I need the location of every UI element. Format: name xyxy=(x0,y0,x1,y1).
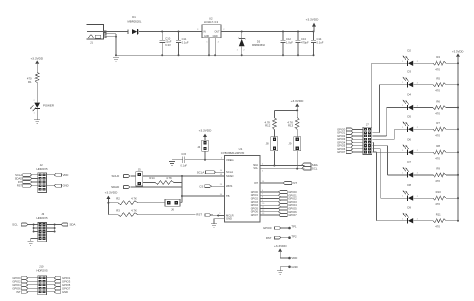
wire J3 to ground xyxy=(31,239,38,242)
svg-text:R7: R7 xyxy=(436,121,440,125)
wire J7 to LED row 6 xyxy=(373,146,405,175)
net flag GPIO2 (J7) xyxy=(337,134,363,138)
svg-text:TP1: TP1 xyxy=(291,225,297,229)
net flag RST xyxy=(196,213,224,217)
capacitor C12 xyxy=(280,32,293,57)
svg-text:R14: R14 xyxy=(149,176,155,180)
pullup resistor R12 4.7K xyxy=(265,110,278,165)
svg-text:OUT: OUT xyxy=(215,30,221,33)
svg-text:GND: GND xyxy=(226,217,232,221)
svg-text:GPIO0: GPIO0 xyxy=(263,226,272,230)
svg-text:GPIO7: GPIO7 xyxy=(251,214,259,217)
LED D3 xyxy=(402,70,419,88)
bottom rail wire xyxy=(116,54,314,56)
wire GPIO0 to flag xyxy=(260,190,279,192)
svg-text:+3.3VDD: +3.3VDD xyxy=(199,129,212,133)
connector J2 xyxy=(36,163,47,192)
ground (J3) xyxy=(28,241,34,245)
net flag GPIO3 (J7) xyxy=(337,137,363,141)
net flag GPIO1 (J10 right) xyxy=(47,276,71,280)
wire jack lower pins xyxy=(106,34,117,57)
svg-text:D7: D7 xyxy=(407,160,411,164)
chip pin names right xyxy=(253,164,259,185)
svg-text:SDAD: SDAD xyxy=(111,185,119,189)
resistor R6 470 xyxy=(414,99,459,115)
svg-text:CY8C9520-24PVXI: CY8C9520-24PVXI xyxy=(221,151,245,155)
wire J7 to LED row 1 xyxy=(372,63,404,127)
net flag SDA xyxy=(302,163,318,167)
net flag GPIO6 (J7) xyxy=(337,147,363,151)
ground (chip) xyxy=(211,224,217,228)
wire J7 to LED row 4 xyxy=(373,129,405,139)
resistor R4 470 xyxy=(414,55,459,71)
LED D8 xyxy=(402,183,419,201)
net flag GPIO7 xyxy=(279,213,298,217)
svg-text:HDR2X5: HDR2X5 xyxy=(36,167,47,171)
svg-text:GND: GND xyxy=(291,265,297,269)
net flag INT (J10 left) xyxy=(16,290,37,294)
capacitor C15 0.1uF xyxy=(180,153,187,167)
svg-text:470: 470 xyxy=(435,156,440,160)
zener diode D3 MMBZ4532 xyxy=(237,32,266,57)
wire R1 to LED xyxy=(33,83,37,103)
svg-text:R1: R1 xyxy=(28,80,32,84)
net flag SCL xyxy=(302,167,318,171)
svg-text:GND: GND xyxy=(63,184,69,188)
net flag SDA (J3) xyxy=(47,223,76,227)
svg-text:MBR0520L: MBR0520L xyxy=(128,20,142,24)
svg-text:D4: D4 xyxy=(407,93,411,97)
svg-text:HDR2X5: HDR2X5 xyxy=(36,269,47,273)
wire J6 to RT node xyxy=(180,202,182,204)
LED D10 POWER xyxy=(30,103,54,112)
net flag VDD (J2) xyxy=(47,173,69,177)
net flag RST (J2) xyxy=(17,184,38,188)
ground (power LED) xyxy=(34,120,40,124)
ground (test point) xyxy=(277,271,283,275)
svg-text:INT: INT xyxy=(254,182,258,185)
capacitor C13 xyxy=(295,32,309,57)
svg-text:470: 470 xyxy=(435,89,440,93)
net flag GPIO0 (J10 left) xyxy=(12,276,37,280)
svg-text:R5: R5 xyxy=(436,76,440,80)
svg-text:GPIO3: GPIO3 xyxy=(62,279,71,283)
svg-text:R4: R4 xyxy=(436,55,440,59)
svg-text:LD1117-3.3: LD1117-3.3 xyxy=(204,20,219,24)
svg-text:SDAD: SDAD xyxy=(15,176,23,180)
LED D7 xyxy=(402,160,419,178)
capacitor C14 xyxy=(311,32,324,57)
net flag GPIO7 (J10 right) xyxy=(47,286,71,290)
wire GPIO7 to flag xyxy=(260,213,279,215)
svg-text:R9: R9 xyxy=(436,167,440,171)
resistor R1 470 xyxy=(27,72,39,84)
svg-text:RST: RST xyxy=(196,213,202,217)
svg-text:0.1uF: 0.1uF xyxy=(317,40,324,44)
jumper J5 xyxy=(136,167,143,186)
wire LED to ground xyxy=(33,108,37,119)
svg-text:4.7K: 4.7K xyxy=(131,196,137,200)
net flag GPIO3 xyxy=(279,200,298,204)
svg-text:+3.3VDD: +3.3VDD xyxy=(30,56,43,60)
svg-text:R10: R10 xyxy=(436,190,442,194)
connector J1 (DC power jack) xyxy=(87,25,107,45)
svg-text:D6: D6 xyxy=(407,137,411,141)
net flag GPIO5 (J7) xyxy=(337,144,363,148)
power flag +3.3VDD (pullups) xyxy=(291,99,304,111)
resistor R5 470 xyxy=(414,76,459,92)
wire U2 GND pins to rail xyxy=(208,38,216,57)
jumper J4 xyxy=(197,140,208,151)
power flag +3.3VDD (pullups R2 R3) xyxy=(105,190,118,214)
wire GPIO4 to flag xyxy=(260,203,279,205)
wire INT to flag xyxy=(260,181,283,183)
net flag GPIO0 xyxy=(279,190,298,194)
test point VDD xyxy=(288,256,297,260)
svg-text:R13: R13 xyxy=(288,124,294,128)
net flag GPIO5 (J10 right) xyxy=(47,283,71,287)
wire GPIO2 to flag xyxy=(260,197,279,199)
svg-text:J7: J7 xyxy=(366,123,369,127)
svg-text:GND: GND xyxy=(62,290,68,294)
svg-text:GPIO0: GPIO0 xyxy=(12,276,21,280)
wire GPIO6 to flag xyxy=(260,210,279,212)
svg-text:GPIO5: GPIO5 xyxy=(62,283,71,287)
svg-text:GPIO6: GPIO6 xyxy=(12,286,21,290)
svg-text:D1: D1 xyxy=(132,15,136,19)
svg-text:SCLA: SCLA xyxy=(15,173,22,177)
capacitor C11 xyxy=(176,32,189,57)
svg-text:SCL: SCL xyxy=(12,223,18,227)
wire pullup tie xyxy=(274,109,298,111)
net flag GPIO3 (J10 right) xyxy=(47,279,71,283)
svg-text:D2: D2 xyxy=(407,48,411,52)
net flag GPIO6 (J10 left) xyxy=(12,286,37,290)
wire U2 output rail xyxy=(221,31,315,33)
ground (C15) xyxy=(169,161,175,165)
svg-text:+3.3VDD: +3.3VDD xyxy=(306,18,319,22)
svg-text:GPIO7: GPIO7 xyxy=(337,150,346,154)
svg-text:RST: RST xyxy=(266,236,272,240)
net flag SCLD xyxy=(111,174,135,178)
svg-text:470pF: 470pF xyxy=(301,40,309,44)
svg-text:RST: RST xyxy=(17,184,23,188)
wire VDD decoupling xyxy=(172,158,225,160)
wire J3 right strap xyxy=(47,224,56,233)
svg-text:VDD: VDD xyxy=(291,256,297,260)
net flag GPIO2 (J10 left) xyxy=(12,279,37,283)
wire chip SDA to pullup and flag xyxy=(260,163,305,166)
LED D9 xyxy=(402,206,419,224)
resistor R10 470 xyxy=(414,190,459,206)
svg-text:D5: D5 xyxy=(407,114,411,118)
LED rail junctions xyxy=(457,62,459,221)
svg-text:4.7K: 4.7K xyxy=(166,176,172,180)
net flag SCLA (J2) xyxy=(15,173,38,177)
power flag +3.3VDD (power LED) xyxy=(30,56,43,72)
svg-text:6.3V: 6.3V xyxy=(165,43,171,47)
net flag GPIO0 test point xyxy=(263,226,290,230)
svg-text:4.7K: 4.7K xyxy=(131,208,137,212)
svg-text:R2: R2 xyxy=(116,196,120,200)
svg-text:CS: CS xyxy=(199,184,203,188)
svg-text:INT: INT xyxy=(18,180,23,184)
svg-text:470: 470 xyxy=(435,225,440,229)
regulator U2 LD1117-3.3 xyxy=(197,17,225,44)
LED D6 xyxy=(402,137,419,155)
wire GPIO5 to flag xyxy=(260,207,279,209)
capacitor C10 xyxy=(160,32,172,57)
svg-text:POWER: POWER xyxy=(43,103,54,107)
power flag +3.3VDD (VDD test point) xyxy=(274,244,287,258)
wire RT row to chip xyxy=(182,194,225,196)
wire J7 to LED row 2 xyxy=(373,85,405,133)
svg-text:0.1uF: 0.1uF xyxy=(182,40,189,44)
power flag +3.3VDD (regulator output) xyxy=(306,18,319,32)
test point TP1 xyxy=(288,225,297,230)
svg-text:MMBZ4532: MMBZ4532 xyxy=(252,44,266,47)
svg-text:J8: J8 xyxy=(266,142,269,146)
svg-text:D8: D8 xyxy=(407,183,411,187)
net flag SDAD xyxy=(111,185,182,189)
svg-text:R3: R3 xyxy=(116,208,120,212)
svg-text:R6: R6 xyxy=(436,99,440,103)
svg-text:R12: R12 xyxy=(265,124,271,128)
jumper J6 xyxy=(165,199,180,211)
net flag GPIO4 (J10 left) xyxy=(12,283,37,287)
wire GND test point xyxy=(280,267,289,271)
wire J7 to LED row 8 xyxy=(373,152,405,221)
svg-text:SCL: SCL xyxy=(312,167,318,171)
svg-text:IN: IN xyxy=(203,30,206,33)
wire GPIO1 to flag xyxy=(260,193,279,195)
LED D4 xyxy=(402,93,419,111)
net flag SCLA xyxy=(197,170,225,174)
net flag RST test point xyxy=(266,236,290,240)
wire J5 pin1 to chip (SDA) xyxy=(143,174,225,177)
wire J4 to VDD net xyxy=(204,151,206,161)
svg-text:GPIO7: GPIO7 xyxy=(288,213,297,217)
net flag CS xyxy=(199,184,224,188)
svg-text:GPIO2: GPIO2 xyxy=(12,279,21,283)
svg-text:470: 470 xyxy=(435,67,440,71)
svg-text:470: 470 xyxy=(435,179,440,183)
net flag SCL (J3) xyxy=(12,223,38,227)
net flag GPIO6 xyxy=(279,210,298,214)
diode D1 MBR0520L xyxy=(128,15,142,35)
svg-text:VDD: VDD xyxy=(63,173,69,177)
wire D1 to U2 xyxy=(139,31,202,33)
wire J7 to LED row 7 xyxy=(373,149,405,198)
net flag GPIO1 (J7) xyxy=(337,131,363,135)
test point GND xyxy=(288,265,297,269)
svg-text:D3: D3 xyxy=(407,70,411,74)
wire vertical node xyxy=(181,176,183,203)
svg-text:INT: INT xyxy=(16,290,21,294)
svg-text:R11: R11 xyxy=(436,213,441,217)
svg-text:470: 470 xyxy=(435,133,440,137)
wire J7 to LED row 5 xyxy=(373,142,405,152)
net flag INT xyxy=(283,181,297,185)
svg-text:SCLA: SCLA xyxy=(226,170,233,174)
svg-text:J1: J1 xyxy=(90,40,93,44)
resistor R9 470 xyxy=(414,167,459,183)
connector J10 xyxy=(36,265,47,295)
svg-text:C15: C15 xyxy=(181,153,186,156)
wire GPIO3 to flag xyxy=(260,200,279,202)
net flag GPIO5 xyxy=(279,207,298,211)
IC U1 CY8C9520-24PVXI xyxy=(221,147,260,222)
svg-text:470: 470 xyxy=(435,202,440,206)
svg-text:GPIO4: GPIO4 xyxy=(12,283,21,287)
svg-text:INT: INT xyxy=(292,181,297,185)
net flag INT (J2) xyxy=(18,180,38,184)
wire jack to D1 xyxy=(106,31,128,33)
svg-text:GPIO7: GPIO7 xyxy=(62,286,71,290)
wire chip SCL to pullup and flag xyxy=(260,168,305,173)
svg-text:R8: R8 xyxy=(436,144,440,148)
resistor R7 470 xyxy=(414,121,459,137)
svg-text:D9: D9 xyxy=(407,206,411,210)
resistor R11 470 xyxy=(414,213,459,229)
net flag GPIO2 xyxy=(279,197,298,201)
svg-text:0.1uF: 0.1uF xyxy=(180,165,187,168)
svg-text:J5: J5 xyxy=(138,167,141,171)
svg-text:GND: GND xyxy=(204,36,209,38)
resistor R3 4.7K xyxy=(108,208,195,216)
svg-text:SCLA: SCLA xyxy=(197,170,205,174)
svg-text:TB: TB xyxy=(226,194,230,198)
svg-text:SDA: SDA xyxy=(70,223,76,227)
svg-text:+3.3VDD: +3.3VDD xyxy=(105,190,118,194)
svg-text:TP2: TP2 xyxy=(291,234,297,238)
svg-text:+3.3VDD: +3.3VDD xyxy=(274,244,287,248)
svg-text:J9: J9 xyxy=(288,142,291,146)
net flag GPIO0 (J7) xyxy=(337,127,363,131)
LED D2 xyxy=(402,48,419,66)
wire chip GND pin xyxy=(214,219,225,224)
connector J3 xyxy=(36,212,47,241)
pullup resistor R13 4.7K xyxy=(287,110,300,168)
power flag +3.3VDD (LED rail) xyxy=(452,50,463,221)
svg-text:J6: J6 xyxy=(171,207,174,211)
power flag +3.3VDD (J4) xyxy=(199,129,212,141)
wire J3 left strap xyxy=(33,224,38,233)
svg-text:GPIO1: GPIO1 xyxy=(62,276,71,280)
svg-text:SDAD: SDAD xyxy=(226,174,234,178)
resistor R8 470 xyxy=(414,144,459,160)
net flag GND (J10 right) xyxy=(47,290,69,294)
svg-text:SCL: SCL xyxy=(253,167,258,170)
resistor R14 4.7K xyxy=(143,176,182,184)
net flag GPIO4 (J7) xyxy=(337,140,363,144)
resistor R2 4.7K xyxy=(108,196,165,204)
svg-text:WDS: WDS xyxy=(226,184,232,188)
LED D5 xyxy=(402,114,419,132)
svg-text:HDR2X5: HDR2X5 xyxy=(36,216,47,220)
svg-text:+3.3VDD: +3.3VDD xyxy=(291,99,304,103)
net flag SDAD (J2) xyxy=(15,176,38,180)
net flag GND (J2) xyxy=(47,184,69,188)
connector J7 xyxy=(363,123,372,155)
wire J7 to LED row 3 xyxy=(373,108,405,136)
svg-text:1.0uF: 1.0uF xyxy=(286,40,293,44)
net flag GPIO7 (J7) xyxy=(337,150,363,154)
svg-text:470: 470 xyxy=(435,112,440,116)
net flag GPIO1 xyxy=(279,193,298,197)
svg-text:SCLD: SCLD xyxy=(111,174,119,178)
wire VDD test point xyxy=(280,257,289,259)
test point TP2 xyxy=(288,234,297,239)
ground (input) xyxy=(113,58,119,62)
svg-text:J4: J4 xyxy=(197,145,200,149)
svg-text:+3.3VDD: +3.3VDD xyxy=(452,50,463,54)
net flag GPIO4 xyxy=(279,203,298,207)
svg-text:VREG: VREG xyxy=(226,158,234,162)
